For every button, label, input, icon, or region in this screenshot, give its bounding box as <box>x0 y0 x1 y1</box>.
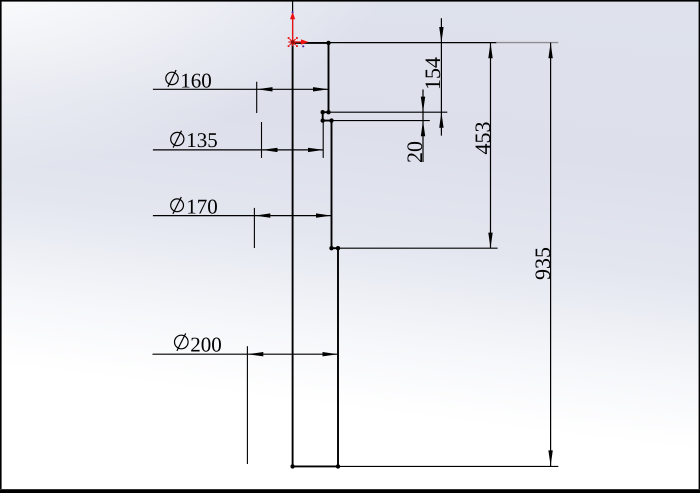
extension line y=248.2 <box>338 247 498 249</box>
svg-text:20: 20 <box>402 141 427 163</box>
svg-text:453: 453 <box>470 122 495 155</box>
origin marker <box>288 11 309 47</box>
dimension D160 <box>153 69 329 114</box>
profile outline <box>293 43 338 467</box>
dimension D200 <box>153 332 339 464</box>
svg-text:154: 154 <box>420 57 445 90</box>
svg-text:200: 200 <box>190 332 222 356</box>
dimension 935 <box>530 43 555 466</box>
vertex dots <box>290 41 340 469</box>
border top <box>0 0 700 2</box>
extension line top (gray part, 935) <box>496 42 558 44</box>
svg-text:935: 935 <box>530 247 555 280</box>
extension line bottom y=466 <box>340 465 558 467</box>
svg-text:160: 160 <box>180 69 212 93</box>
border right <box>699 0 700 489</box>
extension line y=120.6 <box>332 120 430 122</box>
border left <box>0 0 2 489</box>
border bottom bar <box>0 489 700 493</box>
dimension 20 <box>402 90 427 164</box>
svg-text:170: 170 <box>186 194 218 218</box>
dimension 154 <box>420 18 445 135</box>
dimension 453 <box>470 43 495 249</box>
extension line top (black part) <box>329 42 497 44</box>
dimension D135 <box>153 122 324 158</box>
extension line y=112 <box>329 111 448 113</box>
dimension D170 <box>153 194 332 248</box>
svg-text:135: 135 <box>186 128 218 152</box>
centerline above origin <box>292 0 294 43</box>
